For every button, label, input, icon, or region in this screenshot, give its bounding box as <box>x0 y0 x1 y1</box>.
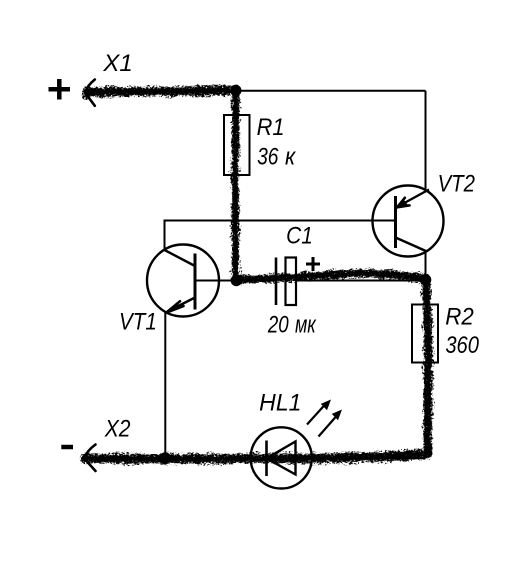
svg-text:20: 20 <box>267 311 289 338</box>
svg-text:R1: R1 <box>257 113 285 140</box>
svg-text:VT1: VT1 <box>119 308 157 335</box>
svg-text:мк: мк <box>295 312 317 338</box>
svg-text:36: 36 <box>257 142 279 170</box>
svg-text:X2: X2 <box>104 415 131 442</box>
svg-text:к: к <box>285 142 296 169</box>
svg-text:R2: R2 <box>445 303 474 330</box>
svg-text:X1: X1 <box>102 50 132 77</box>
svg-text:HL1: HL1 <box>259 389 301 416</box>
svg-text:VT2: VT2 <box>438 170 476 197</box>
svg-text:360: 360 <box>445 332 479 359</box>
svg-text:C1: C1 <box>286 222 313 249</box>
